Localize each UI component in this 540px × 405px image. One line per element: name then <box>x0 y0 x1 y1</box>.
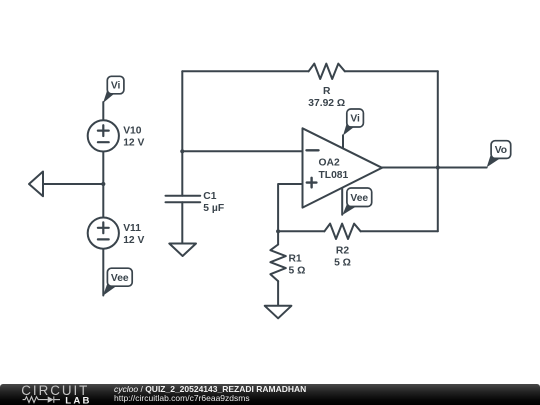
CircuitLab logo <box>0 383 110 405</box>
capacitor C1 plates <box>166 196 201 203</box>
flag Vo at output <box>487 141 511 168</box>
label R value <box>308 86 345 109</box>
resistor R1 body <box>270 245 285 282</box>
ground below R1 <box>265 306 292 319</box>
svg-text:TL081: TL081 <box>319 170 349 181</box>
svg-text:Vi: Vi <box>350 114 360 125</box>
flag Vi at op-amp V+ <box>343 109 363 136</box>
flag Vee at op-amp V- <box>342 188 371 215</box>
label C1 value <box>203 191 224 214</box>
credit text <box>114 385 306 404</box>
svg-text:Vo: Vo <box>495 145 507 156</box>
label R1 value <box>289 254 306 277</box>
wire R2 left to node <box>278 230 324 232</box>
wire V11 bottom to Vee flag <box>102 249 104 296</box>
svg-text:5 µF: 5 µF <box>203 203 224 214</box>
label V10 value <box>123 126 144 149</box>
voltage source V11 <box>88 218 119 249</box>
svg-text:OA2: OA2 <box>319 158 340 169</box>
wire op-amp output to Vo <box>382 167 487 169</box>
flag Vee at bottom of sources <box>103 268 132 296</box>
wire top horizontal right of R <box>345 70 438 72</box>
svg-text:R2: R2 <box>336 245 349 256</box>
wire node to C1 top <box>181 151 183 196</box>
svg-text:Vee: Vee <box>350 193 368 204</box>
junction node at R1/R2 <box>276 229 280 233</box>
junction node at sources midpoint <box>101 182 105 186</box>
svg-text:Vi: Vi <box>111 81 121 92</box>
label V11 value <box>123 223 144 246</box>
wire right vertical feedback <box>437 71 439 231</box>
wire non-inverting input <box>278 184 302 231</box>
svg-text:R1: R1 <box>289 254 302 265</box>
svg-text:R: R <box>323 86 331 97</box>
input terminal arrow <box>29 172 43 197</box>
wire top horizontal left of R <box>182 70 308 72</box>
svg-text:12 V: 12 V <box>123 138 144 149</box>
svg-text:C1: C1 <box>203 191 216 202</box>
wire Vi flag to V10 top <box>102 102 104 121</box>
flag Vi at top of sources <box>103 76 124 103</box>
svg-text:V10: V10 <box>123 126 142 137</box>
voltage source V10 <box>88 120 119 151</box>
svg-text:12 V: 12 V <box>123 235 144 246</box>
svg-text:37.92 Ω: 37.92 Ω <box>308 98 345 109</box>
wire V- power stub <box>341 188 343 215</box>
footer bar <box>0 384 540 405</box>
junction node at output <box>436 165 440 169</box>
junction node at C1 / inverting input <box>180 149 184 153</box>
svg-text:5 Ω: 5 Ω <box>289 266 306 277</box>
ground below C1 <box>169 244 196 257</box>
label R2 value <box>334 245 351 268</box>
wire feedback left vertical <box>181 71 183 151</box>
svg-text:V11: V11 <box>123 223 141 234</box>
svg-text:Vee: Vee <box>111 273 129 284</box>
op-amp OA2 body <box>303 128 383 207</box>
wire bottom horizontal to R2 <box>361 230 438 232</box>
wire C1 bottom to ground <box>181 202 183 243</box>
wire R1 bottom to ground <box>277 281 279 306</box>
label OA2 TL081 <box>319 158 349 182</box>
svg-text:LAB: LAB <box>65 395 91 405</box>
resistor R body <box>309 64 345 79</box>
resistor R2 body <box>324 224 360 239</box>
wire V10 bottom to V11 top <box>102 152 104 218</box>
svg-text:5 Ω: 5 Ω <box>334 257 351 268</box>
wire input arrow to node junction <box>43 183 103 185</box>
wire V+ power stub <box>342 135 344 148</box>
wire node to R1 top <box>277 231 279 244</box>
wire inverting input <box>182 150 302 152</box>
